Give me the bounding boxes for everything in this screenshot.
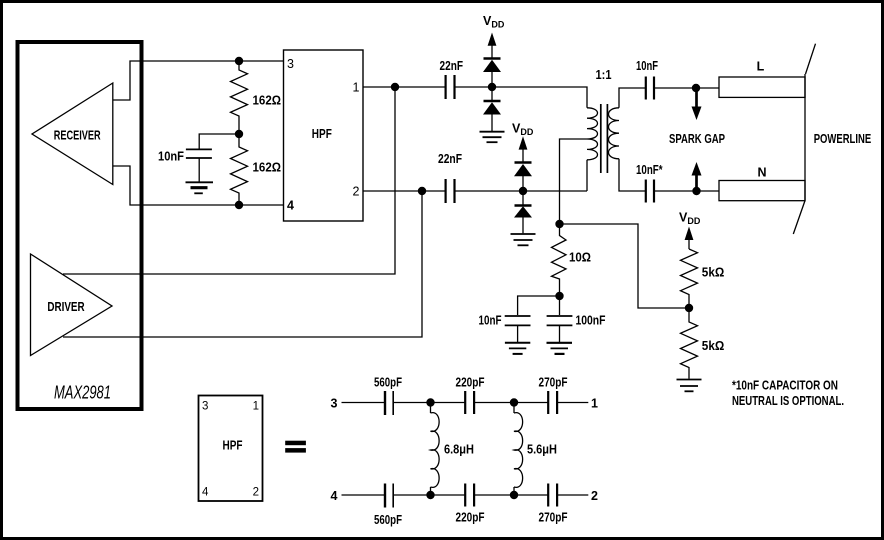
HPF equivalent small box	[199, 396, 263, 502]
capacitor C 10nF at receiver input	[158, 134, 239, 182]
wire 270pF to terminal 2	[557, 494, 588, 496]
wire 10nF to L terminal	[654, 87, 719, 89]
capacitor C 22nF top	[440, 59, 464, 99]
svg-text:POWERLINE: POWERLINE	[814, 132, 872, 146]
capacitor C 10nF* neutral side	[636, 163, 663, 203]
inductor L 6.8uH	[431, 403, 475, 496]
resistor R 162ohm lower	[231, 134, 282, 205]
svg-text:10nF: 10nF	[636, 59, 658, 73]
svg-text:10nF*: 10nF*	[636, 163, 663, 177]
ground for 100nF bias	[547, 343, 573, 354]
svg-text:270pF: 270pF	[539, 376, 568, 390]
powerline bus	[793, 44, 871, 234]
svg-text:5kΩ: 5kΩ	[702, 339, 725, 353]
svg-text:100nF: 100nF	[576, 313, 606, 327]
svg-text:N: N	[757, 166, 766, 180]
equals sign	[285, 441, 306, 453]
svg-text:MAX2981: MAX2981	[54, 383, 111, 403]
node at diode clamp top path	[488, 83, 496, 91]
svg-text:HPF: HPF	[223, 439, 243, 453]
wire 220pF to node B	[474, 402, 548, 404]
svg-text:4: 4	[202, 487, 209, 499]
node D bottom	[510, 491, 518, 499]
wire secondary bottom to 10nF*	[619, 159, 646, 191]
resistor R 162ohm upper	[231, 61, 282, 134]
inductor L 5.6uH	[514, 403, 557, 496]
resistor R 5k lower	[681, 308, 725, 379]
wire 220pF to node D	[474, 494, 548, 496]
wire terminal 3 to 560pF	[342, 402, 386, 404]
primary winding	[587, 108, 598, 160]
wire primary tap down to 10ohm node	[560, 139, 588, 224]
svg-text:220pF: 220pF	[456, 511, 485, 525]
svg-text:5.6μH: 5.6μH	[527, 443, 557, 457]
ground for top clamp	[480, 132, 505, 143]
node junction between 162 ohm resistors	[235, 130, 243, 138]
capacitor C 270pF top	[539, 376, 568, 415]
svg-text:4: 4	[287, 199, 294, 213]
svg-text:4: 4	[331, 489, 338, 503]
diode D clamp to GND (top path)	[483, 87, 501, 131]
spark gap arrows	[669, 88, 725, 191]
wire terminal 4 to 560pF bottom	[342, 494, 386, 496]
svg-text:10nF: 10nF	[158, 150, 184, 164]
capacitor C 560pF top	[374, 376, 402, 416]
wire HPF pin1 to 22nF	[363, 86, 446, 88]
capacitor C 100nF bias	[547, 296, 606, 342]
diode D clamp to VDD (top path)	[483, 59, 501, 88]
resistor R 5k upper	[681, 249, 725, 308]
transformer T1 1:1	[587, 68, 619, 191]
capacitor C 220pF top	[456, 376, 485, 415]
svg-text:3: 3	[287, 57, 294, 71]
svg-text:1:1: 1:1	[596, 68, 612, 82]
amplifier DRIVER	[31, 254, 113, 356]
wire 10ohm node to 5k divider mid	[560, 224, 690, 308]
svg-text:DRIVER: DRIVER	[47, 300, 84, 314]
svg-text:10nF: 10nF	[479, 313, 502, 327]
svg-text:10Ω: 10Ω	[569, 251, 591, 265]
ground for 10nF receiver cap	[186, 182, 214, 193]
svg-text:3: 3	[331, 397, 338, 411]
svg-text:1: 1	[253, 401, 259, 413]
resistor R 10ohm	[552, 224, 592, 296]
ground for bottom clamp	[511, 234, 536, 245]
VDD supply bottom clamp	[512, 122, 534, 163]
diode D clamp to GND (bottom path)	[514, 191, 532, 233]
note text	[732, 379, 844, 408]
wire 560pF to node C	[393, 494, 465, 496]
svg-text:6.8μH: 6.8μH	[444, 443, 474, 457]
svg-text:560pF: 560pF	[374, 513, 402, 527]
node on pin1 wire	[391, 83, 399, 91]
node on pin2 wire	[418, 187, 426, 195]
IC U1 MAX2981 outline	[18, 42, 142, 409]
svg-text:270pF: 270pF	[539, 511, 568, 525]
capacitor C 22nF bottom	[438, 152, 462, 203]
primary bottom lead	[586, 160, 588, 191]
capacitor C 560pF bottom	[374, 484, 402, 528]
wire secondary top to 10nF	[619, 88, 646, 108]
svg-text:*10nF CAPACITOR ON: *10nF CAPACITOR ON	[732, 379, 838, 393]
svg-text:5kΩ: 5kΩ	[702, 266, 725, 280]
amplifier RECEIVER	[32, 83, 113, 185]
filter block HPF	[284, 50, 364, 221]
diode D clamp to VDD (bottom path)	[514, 163, 532, 192]
node at diode clamp bottom path	[519, 187, 527, 195]
svg-text:2: 2	[253, 487, 259, 499]
svg-text:162Ω: 162Ω	[253, 161, 282, 175]
capacitor C 270pF bottom	[539, 484, 568, 525]
svg-text:NEUTRAL IS OPTIONAL.: NEUTRAL IS OPTIONAL.	[732, 394, 844, 408]
capacitor C 10nF bias	[479, 296, 560, 342]
node divider midpoint	[685, 304, 693, 312]
svg-text:2: 2	[353, 185, 360, 199]
wire driver top output	[63, 87, 395, 274]
transformer core	[600, 104, 602, 173]
node spark gap top	[692, 84, 700, 92]
VDD supply top clamp	[483, 14, 505, 58]
wire 560pF to node A	[393, 402, 465, 404]
node B top	[510, 398, 518, 406]
svg-text:HPF: HPF	[312, 127, 332, 141]
node A top	[426, 398, 434, 406]
secondary winding	[609, 108, 620, 159]
node junction on pin4 wire	[235, 201, 243, 209]
terminal L	[719, 60, 805, 98]
wire driver bottom output	[63, 191, 422, 337]
ground for 10nF bias	[505, 343, 530, 354]
svg-text:22nF: 22nF	[438, 152, 462, 166]
svg-text:2: 2	[591, 489, 598, 503]
svg-text:162Ω: 162Ω	[253, 94, 282, 108]
svg-text:SPARK GAP: SPARK GAP	[669, 132, 725, 146]
wire 22nF to transformer primary top	[455, 87, 588, 108]
node at bottom of 10ohm	[555, 292, 563, 300]
wire 270pF to terminal 1	[557, 402, 588, 404]
svg-text:RECEIVER: RECEIVER	[54, 129, 101, 143]
wire 10nF* to N terminal	[654, 190, 719, 192]
svg-text:1: 1	[353, 81, 360, 95]
wire HPF pin2 to 22nF bottom	[363, 190, 446, 192]
node junction on pin3 wire	[235, 57, 243, 65]
wire 22nF bottom to transformer primary bottom	[455, 190, 588, 192]
wire receiver top input to HPF pin 3	[113, 61, 284, 100]
svg-text:22nF: 22nF	[440, 59, 464, 73]
node spark gap bottom	[692, 187, 700, 195]
svg-text:L: L	[757, 60, 765, 74]
svg-text:3: 3	[202, 401, 208, 413]
svg-text:560pF: 560pF	[374, 376, 402, 390]
terminal N	[719, 166, 805, 201]
VDD supply for divider	[679, 211, 701, 250]
wire receiver bottom input to HPF pin 4	[113, 166, 284, 205]
capacitor C 10nF line side	[636, 59, 658, 100]
svg-text:1: 1	[591, 397, 598, 411]
capacitor C 220pF bottom	[456, 484, 485, 525]
node C bottom	[426, 491, 434, 499]
node at top of 10ohm	[555, 220, 563, 228]
ground for divider	[677, 380, 702, 392]
svg-text:220pF: 220pF	[456, 376, 485, 390]
